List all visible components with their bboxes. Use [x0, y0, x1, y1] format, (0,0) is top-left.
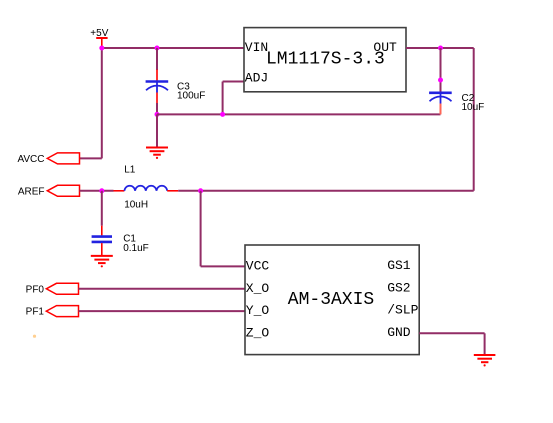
svg-text:AVCC: AVCC	[17, 154, 44, 165]
svg-text:/SLP: /SLP	[387, 303, 418, 318]
junction AREF / C1	[99, 188, 104, 193]
wire ground rail (C3 to C2 bottom)	[157, 113, 441, 115]
wire AREF port to L1	[80, 190, 114, 192]
port PF1	[26, 306, 79, 318]
svg-text:LM1117S-3.3: LM1117S-3.3	[266, 50, 385, 70]
wire VCC branch	[201, 191, 245, 267]
junction C3 tap	[155, 46, 160, 51]
capacitor C1	[92, 191, 149, 256]
power symbol +5V	[90, 28, 108, 48]
wire C3 node down to ground	[156, 114, 158, 147]
svg-text:10uF: 10uF	[462, 102, 485, 113]
junction +5V node	[99, 46, 104, 51]
wire OUT pin to right vertical	[406, 47, 474, 49]
svg-text:GS1: GS1	[387, 258, 411, 273]
accelerometer U? AM-3AXIS box	[245, 245, 419, 355]
junction C3 bottom node	[155, 112, 160, 117]
wire right vertical down to AREF rail	[473, 48, 475, 191]
svg-text:Z_O: Z_O	[246, 326, 270, 341]
svg-text:PF1: PF1	[26, 307, 45, 318]
wire +5V rail down to AVCC	[101, 48, 103, 158]
port PF0	[26, 283, 79, 295]
svg-text:+5V: +5V	[90, 28, 108, 39]
regulator U? LM1117S-3.3 box	[244, 28, 406, 92]
wire PF1 to Y_O	[79, 310, 246, 312]
svg-text:AREF: AREF	[18, 186, 45, 197]
svg-text:X_O: X_O	[246, 281, 270, 296]
port AREF	[18, 185, 80, 197]
svg-text:ADJ: ADJ	[245, 71, 268, 86]
capacitor C3	[146, 48, 206, 114]
svg-text:AM-3AXIS: AM-3AXIS	[288, 290, 374, 310]
ground symbol below C1	[91, 256, 113, 268]
wire GND pin to ground	[419, 333, 484, 355]
capacitor C2	[429, 48, 484, 114]
port AVCC	[17, 153, 79, 165]
ground symbol below C3	[146, 148, 168, 159]
junction ADJ tee	[220, 112, 225, 117]
junction C2 tap	[438, 46, 443, 51]
svg-text:PF0: PF0	[26, 284, 45, 295]
wire AVCC port to rail	[80, 157, 102, 159]
wire +5V rail to VIN	[102, 47, 245, 49]
svg-text:L1: L1	[124, 165, 136, 176]
ground symbol at GND	[474, 355, 496, 367]
svg-text:VIN: VIN	[245, 40, 268, 55]
svg-text:VCC: VCC	[246, 259, 270, 274]
wire L1 to right vertical	[178, 190, 474, 192]
svg-text:Y_O: Y_O	[246, 303, 270, 318]
stray mark	[33, 335, 36, 338]
wire PF0 to X_O	[79, 288, 246, 290]
junction L1 right / VCC branch	[198, 188, 203, 193]
svg-text:GND: GND	[387, 325, 411, 340]
svg-text:10uH: 10uH	[124, 199, 148, 210]
svg-text:0.1uF: 0.1uF	[123, 243, 149, 254]
inductor L1	[114, 165, 179, 211]
svg-text:GS2: GS2	[387, 280, 410, 295]
wire ADJ pin to ground rail	[223, 82, 245, 115]
svg-text:100uF: 100uF	[177, 91, 205, 102]
